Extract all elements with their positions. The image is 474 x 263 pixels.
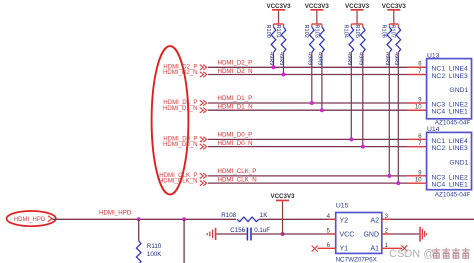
- svg-text:R110: R110: [147, 243, 162, 250]
- svg-text:U14: U14: [427, 126, 440, 133]
- svg-text:49R9: 49R9: [268, 52, 274, 65]
- svg-text:GND: GND: [363, 232, 379, 239]
- svg-text:LINE1: LINE1: [449, 182, 468, 189]
- svg-text:HDMI_CLK_N: HDMI_CLK_N: [218, 177, 257, 184]
- svg-text:HDMI_D1_P: HDMI_D1_P: [218, 95, 253, 102]
- svg-text:NC1: NC1: [432, 138, 446, 145]
- svg-text:GND1: GND1: [449, 87, 468, 94]
- svg-text:NC4: NC4: [432, 182, 446, 189]
- svg-text:0.1uF: 0.1uF: [254, 227, 270, 234]
- svg-text:A1: A1: [370, 246, 379, 253]
- svg-text:49R9: 49R9: [278, 52, 284, 65]
- svg-text:HDMI_D1_N: HDMI_D1_N: [218, 104, 253, 111]
- svg-text:VCC3V3: VCC3V3: [382, 3, 407, 10]
- svg-text:HDMI_CLK_N: HDMI_CLK_N: [159, 178, 198, 185]
- svg-text:HDMI_D2_P: HDMI_D2_P: [218, 59, 253, 66]
- svg-text:VCC: VCC: [340, 232, 355, 239]
- svg-text:HDMI_D0_P: HDMI_D0_P: [218, 132, 253, 139]
- svg-text:R106: R106: [381, 25, 387, 38]
- svg-text:100K: 100K: [147, 251, 162, 258]
- svg-text:HDMI_D1_N: HDMI_D1_N: [163, 105, 198, 112]
- svg-text:NC2: NC2: [432, 145, 446, 152]
- svg-text:49R9: 49R9: [384, 52, 390, 65]
- svg-text:NC2: NC2: [432, 73, 446, 80]
- svg-text:1K: 1K: [260, 212, 268, 219]
- svg-text:HDMI_CLK_P: HDMI_CLK_P: [218, 168, 257, 175]
- svg-text:49R9: 49R9: [317, 52, 323, 65]
- svg-text:HDMI_D0_N: HDMI_D0_N: [218, 140, 253, 147]
- svg-text:LINE4: LINE4: [449, 138, 468, 145]
- svg-text:Y1: Y1: [340, 246, 349, 253]
- svg-text:10: 10: [415, 178, 422, 184]
- svg-text:AZ1045-04F: AZ1045-04F: [435, 120, 471, 127]
- svg-text:HDMI_D2_N: HDMI_D2_N: [163, 69, 198, 76]
- svg-text:C156: C156: [230, 227, 245, 234]
- svg-text:LINE3: LINE3: [449, 73, 468, 80]
- svg-text:LINE2: LINE2: [449, 174, 468, 181]
- svg-text:A2: A2: [370, 217, 379, 224]
- svg-text:HDMI_D2_N: HDMI_D2_N: [218, 68, 253, 75]
- svg-text:R100: R100: [265, 25, 271, 38]
- svg-text:VCC3V3: VCC3V3: [270, 193, 295, 200]
- svg-text:49R9: 49R9: [306, 52, 312, 65]
- svg-text:HDMI_D0_N: HDMI_D0_N: [163, 141, 198, 148]
- svg-text:CSDN @: CSDN @: [389, 248, 434, 260]
- svg-text:49R9: 49R9: [346, 52, 352, 65]
- svg-text:NC4: NC4: [432, 109, 446, 116]
- svg-text:49R9: 49R9: [357, 52, 363, 65]
- svg-text:HDMI_HPD: HDMI_HPD: [14, 217, 46, 223]
- svg-text:LINE1: LINE1: [449, 109, 468, 116]
- svg-text:NC3: NC3: [432, 174, 446, 181]
- svg-text:NC7WZ07P6X: NC7WZ07P6X: [336, 257, 378, 263]
- svg-text:NC1: NC1: [432, 66, 446, 73]
- svg-text:49R9: 49R9: [393, 52, 399, 65]
- svg-text:R103: R103: [313, 25, 319, 38]
- svg-text:10: 10: [415, 105, 422, 111]
- svg-text:U13: U13: [427, 52, 440, 59]
- svg-text:U15: U15: [336, 202, 349, 209]
- svg-text:VCC3V3: VCC3V3: [345, 3, 370, 10]
- svg-text:LINE2: LINE2: [449, 101, 468, 108]
- svg-text:R102: R102: [303, 25, 309, 38]
- svg-text:R107: R107: [390, 25, 396, 38]
- svg-text:HDMI_HPD: HDMI_HPD: [99, 210, 132, 217]
- svg-text:AZ1045-04F: AZ1045-04F: [435, 192, 471, 199]
- svg-text:LINE3: LINE3: [449, 145, 468, 152]
- svg-text:R105: R105: [354, 25, 360, 38]
- svg-text:VCC3V3: VCC3V3: [305, 3, 330, 10]
- svg-text:R108: R108: [221, 212, 236, 219]
- svg-text:R101: R101: [275, 25, 281, 38]
- svg-text:VCC3V3: VCC3V3: [266, 3, 291, 10]
- svg-text:LINE4: LINE4: [449, 66, 468, 73]
- svg-text:NC3: NC3: [432, 101, 446, 108]
- svg-text:GND1: GND1: [449, 160, 468, 167]
- svg-text:R104: R104: [343, 25, 349, 38]
- svg-text:Y2: Y2: [340, 217, 349, 224]
